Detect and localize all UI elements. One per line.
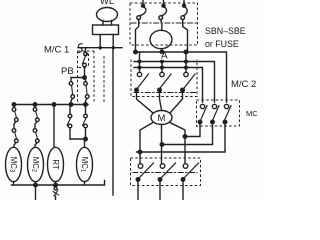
svg-text:or FUSE: or FUSE (205, 39, 239, 49)
svg-text:MC: MC (246, 109, 258, 118)
svg-text:SBN–SBE: SBN–SBE (205, 26, 246, 36)
svg-text:RT: RT (51, 159, 60, 169)
svg-text:A: A (161, 51, 168, 62)
svg-text:PB: PB (61, 66, 74, 77)
svg-text:M: M (158, 113, 166, 124)
svg-text:M/C 2: M/C 2 (231, 79, 256, 90)
svg-text:WL: WL (100, 0, 114, 7)
svg-text:M/C 1: M/C 1 (44, 45, 69, 56)
